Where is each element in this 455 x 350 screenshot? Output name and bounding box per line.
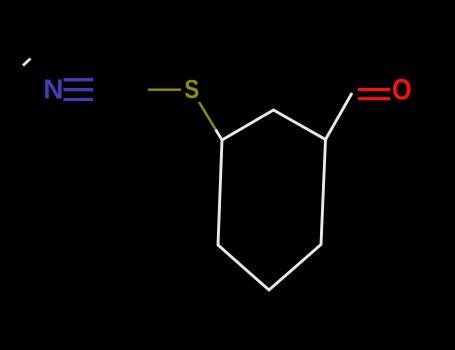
svg-text:N: N xyxy=(43,74,63,105)
svg-text:O: O xyxy=(392,73,412,106)
svg-text:S: S xyxy=(184,74,199,104)
